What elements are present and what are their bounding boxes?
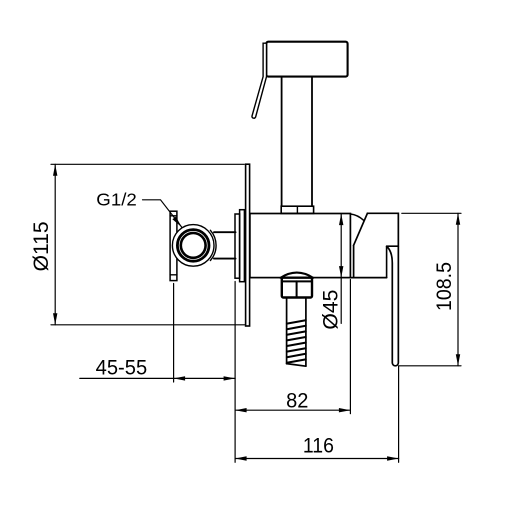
dimension Ø45 <box>340 214 342 324</box>
nut washer dome <box>280 273 313 278</box>
wall escutcheon plate (side view) <box>246 164 250 326</box>
mixer body <box>250 214 351 278</box>
dimension 116 <box>235 366 399 462</box>
dimension 45-55 <box>80 282 235 463</box>
sprayer handle shaft <box>281 78 283 207</box>
svg-text:45-55: 45-55 <box>96 354 148 379</box>
dimension Ø115 line <box>54 164 56 324</box>
threaded rod <box>286 298 288 364</box>
dimension 108.5 <box>399 213 461 365</box>
svg-text:108.5: 108.5 <box>431 262 456 311</box>
cartridge dome arc <box>351 214 364 220</box>
shaft adapter flange <box>281 206 313 213</box>
svg-text:116: 116 <box>303 433 334 458</box>
connector rim arc <box>210 230 216 260</box>
threads <box>287 320 306 363</box>
svg-text:82: 82 <box>286 388 308 413</box>
dimension Ø115 arrows <box>53 164 57 324</box>
mounting flange rear <box>240 210 245 282</box>
inlet bracket plate <box>170 211 177 280</box>
leader G1/2 <box>143 200 182 228</box>
trigger lever <box>252 43 267 118</box>
hex nut <box>282 278 312 298</box>
mounting flange front <box>235 214 240 278</box>
sprayer head <box>266 42 347 77</box>
svg-text:G1/2: G1/2 <box>96 189 137 209</box>
dimension 82 <box>235 280 350 414</box>
dimension Ø115 extension lines <box>51 164 245 324</box>
inlet connector circles <box>172 225 214 267</box>
svg-text:Ø115: Ø115 <box>28 221 53 271</box>
inlet pipe <box>214 231 236 233</box>
handle lever blade <box>367 213 398 366</box>
svg-text:Ø45: Ø45 <box>317 290 342 330</box>
handle cap <box>354 213 368 245</box>
